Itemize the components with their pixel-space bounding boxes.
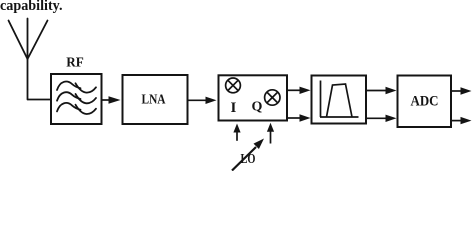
antenna — [9, 19, 48, 100]
RF filter wavy lines — [57, 82, 96, 114]
svg-text:capability.: capability. — [0, 0, 63, 14]
wire antenna to RF filter — [28, 99, 52, 101]
arrow mixer I out to filter (top) — [287, 87, 311, 94]
LO diagonal arrow — [232, 139, 264, 171]
arrow filter to ADC (bottom) — [366, 115, 397, 122]
svg-text:LNA: LNA — [142, 93, 167, 108]
IF filter box — [312, 76, 367, 124]
mixer box — [219, 75, 288, 120]
arrow LNA to mixer — [188, 97, 217, 104]
filter response axes — [320, 81, 359, 118]
mixer I (circle with X) — [226, 78, 241, 93]
LO arrow left into mixer — [233, 124, 240, 141]
ADC box — [398, 76, 452, 128]
LO arrow right into mixer — [267, 123, 274, 144]
arrow ADC output (bottom) — [451, 117, 472, 124]
filter response trapezoid — [327, 84, 353, 117]
LNA box — [123, 75, 188, 124]
arrow RF to LNA — [102, 96, 121, 103]
mixer Q (circle with X) — [265, 90, 280, 105]
svg-text:RF: RF — [66, 56, 84, 71]
arrow mixer Q out to filter (bottom) — [287, 114, 311, 121]
arrow filter to ADC (top) — [366, 87, 397, 94]
arrow ADC output (top) — [451, 87, 472, 94]
RF filter box — [51, 74, 102, 124]
svg-text:LO: LO — [241, 151, 256, 166]
svg-text:ADC: ADC — [411, 94, 439, 110]
svg-text:Q: Q — [252, 100, 263, 115]
svg-text:I: I — [231, 100, 237, 116]
